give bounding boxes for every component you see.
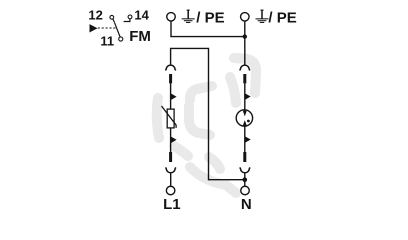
svg-text:/ PE: / PE	[268, 9, 296, 26]
svg-text:14: 14	[134, 8, 149, 23]
wire PE rail horizontal	[170, 36, 245, 38]
plug pin top of L1 path	[169, 74, 172, 83]
disconnect arrow upper N path	[245, 93, 251, 100]
FM changeover switch lever (11 to 12)	[114, 22, 120, 37]
wire L1 path upper	[170, 83, 172, 109]
wire from left PE terminal down	[170, 21, 172, 37]
plug pin top of N path	[243, 74, 246, 83]
FM contact terminal circle 11	[119, 37, 123, 41]
gas discharge tube upper electrode arrow	[243, 109, 247, 116]
varistor box	[167, 109, 174, 128]
wire to L1 terminal	[170, 173, 172, 187]
FM actuator arrow	[90, 24, 98, 32]
varistor diagonal stroke	[162, 106, 177, 128]
FM contact terminal circle 12	[110, 15, 114, 19]
disconnect arrow lower L1 path	[171, 136, 177, 143]
plug-in socket contact top of N path	[240, 65, 251, 70]
gas discharge tube circle	[236, 110, 252, 126]
plug pin bottom of L1 path	[169, 152, 172, 162]
plug-in socket contact bottom of L1 path	[165, 168, 176, 173]
wire from L1 path top to linking rail	[171, 48, 245, 179]
wire N path upper	[244, 83, 246, 110]
ground symbol right	[256, 10, 269, 23]
terminal circle PE left	[167, 13, 176, 22]
junction dot PE rail	[243, 34, 247, 38]
svg-text:12: 12	[88, 8, 102, 23]
svg-text:L1: L1	[163, 196, 181, 213]
terminal circle N	[241, 186, 250, 195]
FM contact bent terminal 14	[124, 19, 130, 22]
plug pin bottom of N path	[243, 152, 246, 162]
wire N path lower	[244, 126, 246, 152]
svg-text:FM: FM	[129, 28, 151, 45]
disconnect arrow upper L1 path	[171, 93, 177, 100]
FM contact terminal circle 14	[128, 15, 132, 19]
plug-in socket contact bottom of N path	[240, 168, 251, 173]
wire to N terminal	[244, 173, 246, 187]
FM actuator dashed linkage	[98, 27, 117, 29]
gas discharge tube gas dot	[247, 120, 250, 123]
FM contact fixed tail of terminal 12	[113, 19, 115, 22]
plug-in socket contact top of L1 path	[165, 65, 176, 70]
ground symbol left	[182, 10, 195, 23]
wire L1 path lower	[170, 128, 172, 152]
disconnect arrow lower N path	[245, 136, 251, 143]
terminal circle L1	[166, 186, 175, 195]
svg-text:/ PE: / PE	[196, 9, 224, 26]
gas discharge tube lower electrode arrow	[243, 120, 247, 127]
terminal circle PE right	[241, 13, 250, 22]
junction dot at N terminal stem	[243, 177, 248, 182]
wire from right PE terminal down to N protection path	[244, 21, 246, 65]
svg-text:N: N	[241, 196, 252, 213]
svg-text:11: 11	[100, 33, 114, 48]
